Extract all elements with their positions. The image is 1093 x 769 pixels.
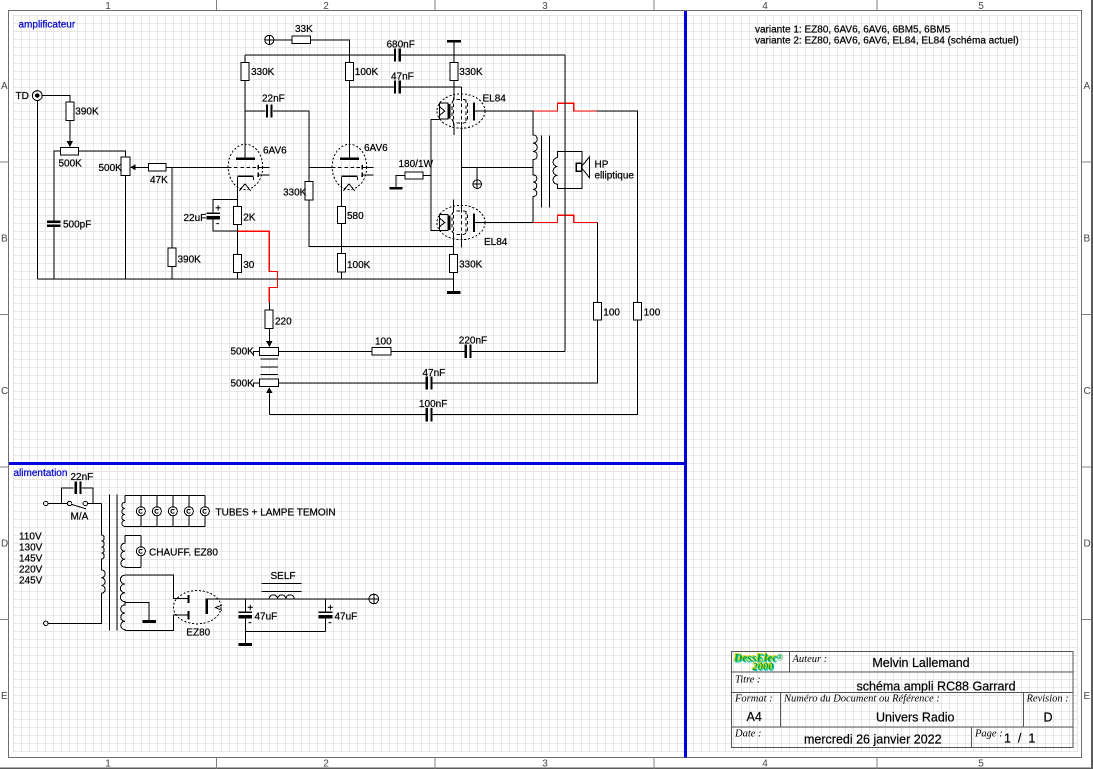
lamp rails top and bottom — [125, 496, 205, 527]
svg-text:-: - — [248, 617, 251, 628]
resistor 30 — [234, 254, 242, 272]
HT center tap to ground — [125, 603, 149, 621]
resistor 330K grid leak bottom — [450, 254, 458, 272]
svg-text:schéma ampli RC88 Garrard: schéma ampli RC88 Garrard — [856, 680, 1015, 694]
wire terminal to switch — [48, 503, 101, 505]
svg-text:220V: 220V — [19, 565, 43, 576]
ruler letters right — [1084, 81, 1091, 702]
red wire upper with hop — [533, 103, 596, 111]
svg-text:100K: 100K — [347, 260, 371, 271]
electrolytic 47uF first — [239, 599, 254, 643]
svg-text:Numéro du Document ou Référenc: Numéro du Document ou Référence : — [783, 694, 940, 705]
wire grid tap V2 — [309, 166, 332, 168]
svg-text:145V: 145V — [19, 554, 43, 565]
wire pot A wiper line — [279, 350, 566, 352]
capacitor 22nF mains — [62, 482, 94, 504]
svg-text:D: D — [1044, 711, 1053, 725]
feedback vertical line — [564, 55, 566, 352]
OPT center tap wire — [462, 166, 534, 168]
B+ output wire — [208, 598, 369, 600]
wire 330K gridleak to EL84 grid — [453, 81, 455, 100]
svg-text:220nF: 220nF — [459, 336, 487, 347]
capacitor 500pF — [47, 220, 61, 227]
black wire upper to right loop — [597, 111, 638, 303]
capacitor 47nF tone — [426, 376, 433, 389]
potentiometer 500K volume — [60, 147, 78, 154]
resistor 33K — [292, 36, 311, 43]
wire V2 cathode to 580 — [341, 177, 343, 206]
svg-text:Date :: Date : — [734, 729, 762, 740]
svg-text:4: 4 — [762, 759, 768, 769]
labels mains voltages — [19, 532, 43, 587]
svg-text:3: 3 — [542, 1, 548, 12]
rectifier EZ80 — [173, 591, 222, 624]
wire 2K to 30 to bus — [237, 224, 239, 279]
svg-text:B: B — [1, 234, 8, 245]
svg-text:2000: 2000 — [752, 662, 775, 673]
svg-text:EZ80: EZ80 — [186, 628, 210, 639]
pot B left stub — [253, 383, 259, 387]
svg-text:47nF: 47nF — [391, 72, 414, 83]
ground bus amplifier — [37, 278, 453, 280]
resistor 100K cathode — [338, 253, 346, 271]
svg-text:Revision :: Revision : — [1026, 694, 1069, 705]
wire pot B wiper line — [279, 382, 426, 384]
svg-text:D: D — [1084, 539, 1091, 550]
svg-text:B: B — [1084, 234, 1091, 245]
wire balance pot to bus — [125, 176, 127, 280]
resistor 2K — [234, 207, 242, 225]
window edge right — [1091, 0, 1093, 769]
svg-text:22nF: 22nF — [71, 472, 94, 483]
svg-text:22nF: 22nF — [262, 94, 285, 105]
svg-text:500pF: 500pF — [63, 220, 91, 231]
blue section divider horizontal — [9, 462, 685, 465]
secondary chauff winding — [121, 536, 125, 568]
svg-text:M/A: M/A — [71, 512, 89, 523]
stub above lower EL84 — [453, 199, 455, 211]
svg-text:100: 100 — [375, 337, 392, 348]
lamp 4 — [184, 507, 193, 516]
wire cathode line to lower EL84 — [431, 175, 439, 230]
wire 47K to V1 grid — [166, 166, 228, 168]
svg-text:2: 2 — [323, 759, 329, 769]
svg-text:TD: TD — [16, 91, 29, 102]
wire jack down to bus — [36, 101, 38, 280]
svg-text:Titre :: Titre : — [735, 675, 761, 686]
electrolytic 22uF — [206, 199, 237, 231]
wire pot left to 500pF — [54, 151, 60, 220]
svg-text:1: 1 — [105, 1, 111, 12]
svg-text:500K: 500K — [99, 163, 123, 174]
wire gnd to 330K gridleak — [453, 43, 455, 63]
wire pot right to balance pot — [78, 151, 125, 157]
svg-text:+: + — [247, 603, 253, 614]
svg-text:500K: 500K — [59, 159, 83, 170]
wire 180 left to ground — [396, 175, 405, 186]
ground bar 47uF — [239, 643, 253, 646]
stub below upper EL84 — [453, 123, 455, 135]
wire 220 to pot arrow — [266, 328, 272, 347]
svg-text:E: E — [1084, 691, 1091, 702]
OPT secondary and speaker box — [553, 152, 582, 189]
svg-text:-: - — [216, 218, 219, 229]
wire B+ to 33K to rail — [274, 40, 350, 55]
B+ symbol center tap — [473, 167, 482, 188]
svg-text:330K: 330K — [459, 67, 483, 78]
svg-text:elliptique: elliptique — [595, 171, 635, 182]
triode V2 6AV6 — [332, 144, 373, 190]
wire 330K interstage down and right — [309, 200, 454, 246]
secondary HT winding — [120, 575, 124, 630]
potentiometer 500K tone A — [260, 348, 279, 356]
capacitor 47nF top — [394, 80, 401, 93]
svg-text:330K: 330K — [251, 67, 275, 78]
ruler numbers top — [105, 1, 984, 12]
wire junction down to 390K cathode-leak — [171, 167, 173, 248]
ruler ticks left — [0, 162, 9, 620]
svg-text:C: C — [1084, 386, 1091, 397]
svg-text:33K: 33K — [295, 24, 313, 35]
svg-text:variante 1: EZ80, 6AV6, 6AV6,: variante 1: EZ80, 6AV6, 6AV6, 6BM5, 6BM5 — [755, 25, 951, 36]
svg-text:100nF: 100nF — [419, 399, 447, 410]
wire red to 220 — [268, 302, 270, 310]
svg-text:D: D — [1, 539, 8, 550]
svg-text:Page :: Page : — [974, 729, 1003, 740]
capacitor 220nF — [465, 345, 472, 358]
logo DessElec 2000 — [733, 653, 784, 674]
wire 580 to 100K to bus — [341, 224, 343, 280]
svg-text:A4: A4 — [747, 710, 762, 724]
svg-text:130V: 130V — [19, 543, 43, 554]
wire upper EL84 screen line down to CT — [461, 126, 463, 211]
resistor 390K leak — [168, 248, 176, 267]
lamp 3 — [168, 507, 177, 516]
inductor SELF — [269, 595, 294, 599]
resistor 100 tone — [372, 348, 391, 355]
resistor 220 — [265, 310, 273, 328]
rail between caps — [245, 631, 325, 633]
ground bar bottom — [447, 291, 461, 294]
svg-text:CHAUFF. EZ80: CHAUFF. EZ80 — [149, 548, 218, 559]
HT rail — [245, 54, 565, 56]
resistor 47K — [149, 164, 167, 171]
lamp wires — [141, 496, 205, 527]
svg-text:6AV6: 6AV6 — [364, 143, 388, 154]
svg-text:500K: 500K — [231, 347, 255, 358]
wire V1 cathode to 2K — [237, 177, 239, 206]
lamp chauff — [136, 547, 145, 556]
electrolytic 47uF second — [319, 599, 334, 632]
red wire lower with hop — [533, 215, 598, 222]
resistor 580 — [338, 206, 346, 223]
wire 100nF line — [269, 414, 425, 416]
potentiometer 500K balance — [121, 157, 130, 176]
lamp 1 — [136, 507, 145, 516]
wire rail to 100K — [348, 55, 350, 63]
svg-text:5: 5 — [978, 1, 984, 12]
svg-text:245V: 245V — [19, 576, 43, 587]
wire lower plate to OPT — [475, 222, 534, 224]
wire 330K bottom to ground — [453, 273, 455, 292]
ruler numbers bottom — [105, 759, 984, 769]
secondary 6.3V tubes winding — [122, 496, 125, 527]
svg-text:-: - — [328, 617, 331, 628]
grid stub upper EL84 second — [461, 87, 463, 98]
svg-text:mercredi 26 janvier 2022: mercredi 26 janvier 2022 — [804, 733, 942, 747]
wire pot B bottom arrow line — [266, 387, 272, 414]
svg-text:220: 220 — [275, 317, 292, 328]
wire 390K to pot wiper with arrow — [67, 121, 73, 148]
capacitor 680nF — [394, 48, 401, 61]
lamp 5 — [200, 507, 209, 516]
svg-text:47nF: 47nF — [423, 368, 446, 379]
svg-text:E: E — [1, 691, 8, 702]
resistor 330K plate V1 — [241, 62, 249, 80]
svg-text:A: A — [1084, 81, 1091, 92]
switch M/A contacts — [67, 501, 87, 509]
mains terminal bottom — [44, 621, 48, 625]
triode V1 6AV6 — [228, 144, 269, 190]
svg-text:EL84: EL84 — [483, 94, 507, 105]
svg-text:2: 2 — [323, 1, 329, 12]
coupling cap 22nF line — [245, 111, 309, 181]
svg-text:®: ® — [777, 653, 784, 663]
svg-text:390K: 390K — [75, 107, 99, 118]
ground bar top EL84 grid leak — [447, 40, 461, 43]
ruler ticks top — [217, 0, 878, 10]
input jack TD — [32, 91, 42, 101]
svg-text:Univers Radio: Univers Radio — [876, 711, 955, 725]
wire 100K to V2 plate — [348, 81, 350, 158]
red wire tone feed — [238, 231, 278, 302]
ground bar 180 — [390, 187, 403, 190]
HT rails — [125, 575, 188, 630]
svg-text:100K: 100K — [355, 67, 379, 78]
svg-text:1 / 1: 1 / 1 — [1004, 732, 1035, 746]
black wire lower loop down — [597, 223, 599, 303]
wire upper plate to OPT — [475, 110, 534, 112]
resistor 100K plate V2 — [345, 62, 353, 80]
OPT core — [541, 136, 549, 208]
blue section divider vertical — [684, 11, 687, 758]
ruler letters left — [1, 81, 8, 702]
OPT primary — [533, 111, 537, 223]
svg-text:+: + — [328, 603, 334, 614]
svg-text:5: 5 — [978, 759, 984, 769]
ruler ticks bottom — [217, 758, 878, 769]
svg-text:amplificateur: amplificateur — [19, 20, 76, 31]
resistor 100 right — [634, 303, 642, 321]
svg-text:SELF: SELF — [271, 571, 296, 582]
wire 390K leak to bus — [171, 267, 173, 280]
svg-text:30: 30 — [243, 260, 255, 271]
svg-text:2K: 2K — [243, 213, 256, 224]
capacitor 100nF — [426, 408, 433, 421]
svg-text:180/1W: 180/1W — [399, 159, 434, 170]
stub below lower EL84 screen — [461, 234, 463, 247]
gang link dashes — [261, 359, 278, 375]
resistor R 390K input — [66, 102, 74, 121]
svg-text:390K: 390K — [178, 255, 202, 266]
lamp 2 — [152, 507, 161, 516]
svg-text:580: 580 — [347, 211, 364, 222]
svg-text:variante 2: EZ80, 6AV6, 6AV6,: variante 2: EZ80, 6AV6, 6AV6, EL84, EL84… — [755, 36, 1019, 47]
SELF core lines — [261, 583, 301, 591]
wiper arrow from 47K — [130, 164, 148, 170]
svg-text:330K: 330K — [459, 259, 483, 270]
wire 180 right to cathode line — [423, 174, 431, 176]
resistor 330K interstage — [305, 181, 313, 200]
svg-text:47uF: 47uF — [255, 612, 278, 623]
svg-text:110V: 110V — [19, 532, 42, 543]
svg-text:3: 3 — [542, 759, 548, 769]
svg-text:Auteur :: Auteur : — [792, 654, 828, 665]
svg-text:Format :: Format : — [734, 694, 773, 705]
window edge bottom — [0, 767, 1093, 769]
wire V1 plate up to 330K — [244, 81, 246, 158]
wire jack to 390K — [42, 95, 70, 102]
svg-text:330K: 330K — [283, 188, 307, 199]
mains terminal top — [44, 501, 48, 505]
wire 100 right down to 100nF line — [433, 320, 638, 415]
svg-text:100: 100 — [644, 308, 661, 319]
svg-text:100: 100 — [603, 308, 620, 319]
svg-text:680nF: 680nF — [387, 40, 415, 51]
resistor 100 left — [594, 303, 602, 321]
svg-text:500K: 500K — [231, 379, 255, 390]
ground bar HT — [142, 620, 156, 623]
svg-text:1: 1 — [105, 759, 111, 769]
wire 100 left down to 47nF line — [433, 320, 598, 383]
svg-text:6AV6: 6AV6 — [263, 146, 287, 157]
chauff rails — [125, 536, 141, 568]
wire upper EL84 cathode — [431, 119, 439, 175]
B+ symbol amplifier — [265, 35, 274, 44]
svg-text:22uF: 22uF — [184, 213, 207, 224]
wire 330K to HT rail — [244, 55, 246, 63]
svg-text:TUBES + LAMPE TEMOIN: TUBES + LAMPE TEMOIN — [216, 508, 336, 519]
svg-text:EL84: EL84 — [484, 237, 508, 248]
svg-text:Melvin Lallemand: Melvin Lallemand — [872, 656, 969, 670]
transformer core — [110, 495, 117, 631]
wire 500pF to bus — [53, 227, 55, 279]
pot A left stub — [253, 351, 259, 355]
svg-text:HP: HP — [595, 160, 609, 171]
wire lower EL84 grid down — [453, 234, 455, 254]
capacitor 22nF — [266, 105, 273, 118]
svg-text:A: A — [1, 81, 8, 92]
svg-text:47K: 47K — [150, 175, 168, 186]
svg-text:+: + — [215, 203, 221, 214]
resistor 330K grid leak top — [450, 62, 458, 80]
speaker HP — [576, 157, 589, 178]
B+ symbol alim — [369, 594, 379, 604]
potentiometer 500K tone B — [260, 379, 279, 387]
svg-text:C: C — [1, 386, 8, 397]
chauff lamp wires — [140, 536, 142, 568]
svg-text:47uF: 47uF — [335, 612, 358, 623]
pentode EL84 lower — [437, 205, 485, 239]
resistor 180/1W — [405, 172, 423, 179]
title block frame — [732, 652, 1074, 748]
svg-text:alimentation: alimentation — [14, 468, 68, 479]
svg-text:4: 4 — [762, 1, 768, 12]
transformer primary — [48, 504, 105, 624]
ruler ticks right — [1082, 162, 1092, 620]
wire 47nF line — [349, 86, 461, 88]
pentode EL84 upper — [437, 94, 485, 128]
